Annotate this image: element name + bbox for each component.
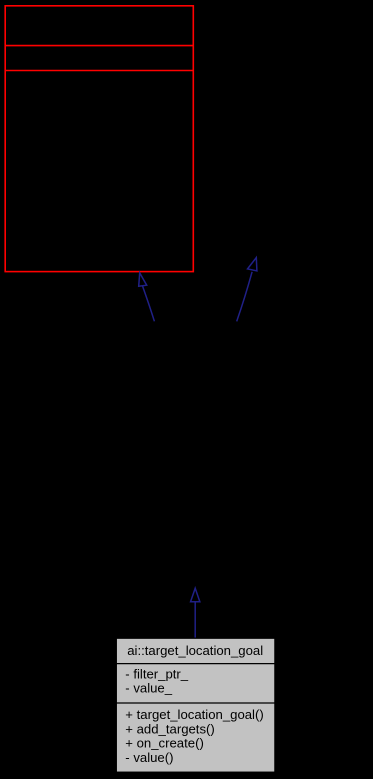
inheritance edge from ai::target_location_goal: arrowhead <box>191 588 200 602</box>
class node separator below title <box>116 663 275 665</box>
svg-text:+ on_create(): + on_create() <box>125 736 204 751</box>
svg-text:+ add_targets(): + add_targets() <box>125 721 214 736</box>
red box separator 1 <box>5 45 193 47</box>
svg-text:- value_: - value_ <box>125 681 172 696</box>
svg-text:- filter_ptr_: - filter_ptr_ <box>125 666 188 681</box>
class node ai::target_location_goal: body <box>116 638 275 772</box>
inheritance edge to red box: line <box>143 286 155 321</box>
red box separator 2 <box>5 70 193 72</box>
inheritance edge from ai::target_location_goal: line <box>194 602 196 639</box>
inheritance edge to hidden right box: line <box>237 272 252 322</box>
svg-text:+ target_location_goal(): + target_location_goal() <box>125 707 263 722</box>
svg-text:- value(): - value() <box>125 750 173 765</box>
class box (red, truncated node) <box>5 6 193 272</box>
svg-text:ai::target_location_goal: ai::target_location_goal <box>127 643 263 658</box>
class node separator below attributes <box>116 702 275 704</box>
inheritance edge to red box: arrowhead <box>139 273 147 286</box>
inheritance edge to hidden right box: arrowhead <box>248 258 257 271</box>
